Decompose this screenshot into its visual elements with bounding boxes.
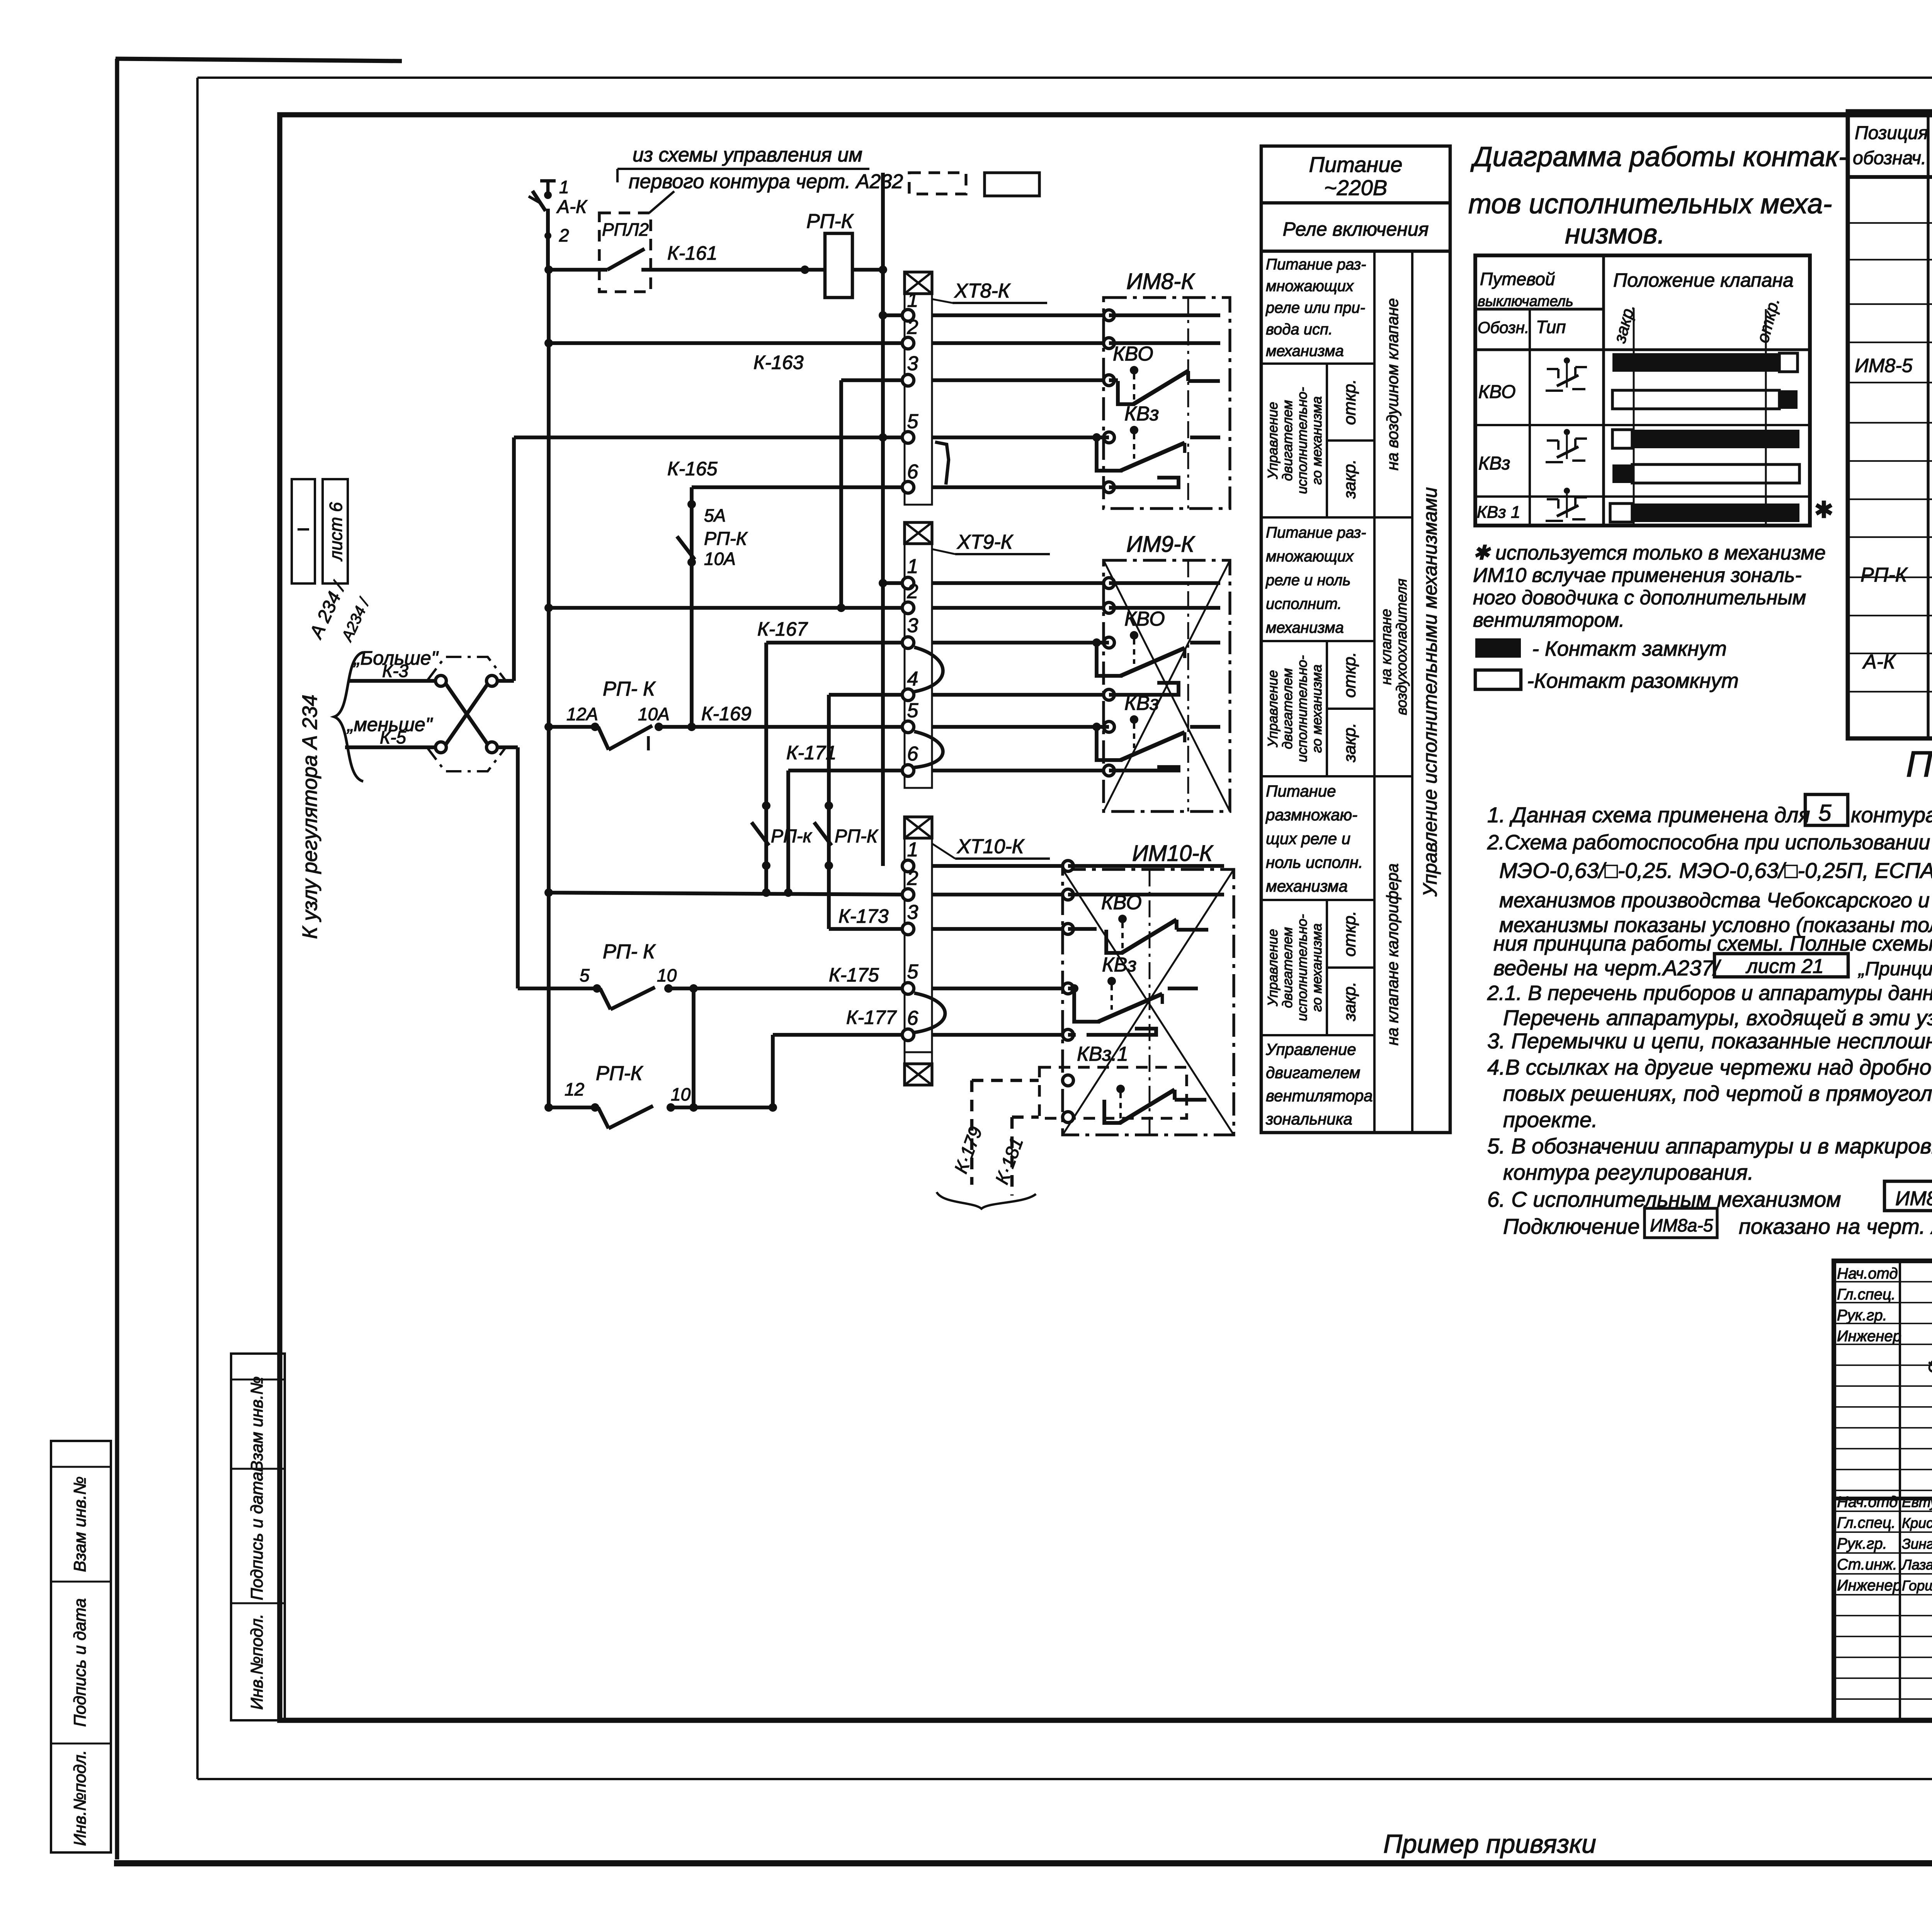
svg-text:4.В ссылках на другие черт: 4.В ссылках на другие чертежи над дробно…: [1487, 1055, 1932, 1079]
svg-text:тов исполнительных меха-: тов исполнительных меха-: [1468, 189, 1832, 219]
svg-text:откр.: откр.: [1340, 911, 1359, 957]
svg-text:ХТ9-К: ХТ9-К: [957, 531, 1014, 553]
svg-text:Питание: Питание: [1266, 782, 1336, 800]
svg-text:5: 5: [907, 410, 919, 433]
svg-text:3: 3: [907, 614, 918, 637]
svg-text:Гл.спец.: Гл.спец.: [1837, 1286, 1896, 1303]
svg-text:ния принципа работы схемы.: ния принципа работы схемы. Полные схемы …: [1493, 932, 1932, 955]
svg-text:из схемы управления им: из схемы управления им: [633, 144, 862, 166]
svg-text:двигателем: двигателем: [1279, 668, 1295, 749]
svg-text:Тип: Тип: [1536, 317, 1566, 337]
svg-text:исполнительно-: исполнительно-: [1294, 387, 1310, 494]
svg-text:закр.: закр.: [1340, 723, 1359, 763]
svg-text:- Контакт замкнут: - Контакт замкнут: [1532, 637, 1727, 660]
svg-text:10: 10: [671, 1084, 691, 1104]
svg-text:механизма: механизма: [1266, 877, 1348, 895]
svg-text:механизма: механизма: [1266, 342, 1344, 359]
svg-text:К-173: К-173: [838, 905, 889, 927]
svg-text:ИМ8-5: ИМ8-5: [1895, 1187, 1932, 1210]
svg-text:К узлу регулятора А 234: К узлу регулятора А 234: [298, 694, 321, 939]
svg-text:низмов.: низмов.: [1565, 219, 1665, 250]
svg-text:лист 21: лист 21: [1745, 955, 1824, 978]
svg-text:ного доводчика с дополнительны: ного доводчика с дополнительным: [1473, 587, 1806, 609]
svg-text:реле или при-: реле или при-: [1265, 299, 1365, 316]
svg-text:1: 1: [559, 177, 569, 197]
svg-text:Взам инв.№: Взам инв.№: [71, 1476, 90, 1572]
svg-text:10А: 10А: [704, 549, 736, 569]
svg-text:Позиция: Позиция: [1855, 123, 1928, 143]
svg-text:ИМ10 вслучае применения зона: ИМ10 вслучае применения зональ-: [1473, 564, 1802, 587]
svg-text:КВО: КВО: [1113, 343, 1153, 365]
svg-text:К-165: К-165: [667, 458, 718, 480]
svg-text:лист 6: лист 6: [326, 502, 346, 562]
svg-text:12: 12: [565, 1079, 584, 1099]
svg-text:2.Схема работоспособна при и: 2.Схема работоспособна при использовании…: [1487, 831, 1932, 854]
svg-text:КВО: КВО: [1101, 891, 1142, 914]
svg-text:Зингерман: Зингерман: [1902, 1536, 1932, 1552]
svg-text:Инженер: Инженер: [1837, 1577, 1901, 1594]
svg-text:ИМ10-К: ИМ10-К: [1132, 841, 1214, 866]
svg-text:множающих: множающих: [1266, 278, 1354, 295]
svg-text:откр.: откр.: [1340, 379, 1359, 425]
svg-text:Подпись и дата: Подпись и дата: [71, 1598, 90, 1727]
svg-text:контура регулирования.: контура регулирования.: [1503, 1160, 1754, 1184]
svg-text:ИМ8-5: ИМ8-5: [1855, 355, 1913, 376]
svg-text:Обозн.: Обозн.: [1478, 318, 1529, 337]
svg-text:5: 5: [907, 699, 919, 722]
svg-text:ХТ8-К: ХТ8-К: [954, 280, 1011, 302]
svg-text:К-163: К-163: [753, 352, 804, 373]
svg-text:показано на черт. А236 /: показано на черт. А236 /: [1739, 1214, 1932, 1238]
svg-text:на клапане: на клапане: [1378, 609, 1395, 685]
svg-text:КВО: КВО: [1124, 608, 1165, 630]
svg-text:10: 10: [657, 965, 677, 985]
svg-text:К-167: К-167: [757, 618, 808, 640]
svg-text:Пример привязки: Пример привязки: [1383, 1829, 1596, 1859]
svg-text:КВО: КВО: [1478, 382, 1516, 402]
svg-text:А-К: А-К: [1862, 651, 1896, 673]
svg-text:КВз 1: КВз 1: [1477, 503, 1520, 522]
svg-text:го механизма: го механизма: [1309, 665, 1325, 753]
svg-text:закр.: закр.: [1340, 982, 1359, 1022]
svg-text:реле и ноль: реле и ноль: [1265, 572, 1350, 589]
svg-text:обознач.: обознач.: [1853, 148, 1926, 168]
svg-text:исполнит.: исполнит.: [1266, 595, 1342, 612]
svg-text:на воздушном клапане: на воздушном клапане: [1383, 298, 1401, 471]
svg-text:механизма: механизма: [1266, 619, 1344, 636]
svg-text:1: 1: [907, 839, 918, 861]
svg-text:РП-К: РП-К: [806, 210, 854, 233]
svg-text:„Принципиалы-ые электрические: „Принципиалы-ые электрические схемы узло…: [1858, 958, 1932, 980]
svg-text:двигателем: двигателем: [1279, 400, 1295, 481]
svg-text:КВз: КВз: [1478, 453, 1510, 474]
svg-text:КВз: КВз: [1124, 403, 1159, 425]
svg-text:РП-К: РП-К: [704, 529, 748, 549]
svg-text:выключатель: выключатель: [1478, 293, 1573, 310]
svg-text:2: 2: [907, 867, 918, 890]
svg-text:го механизма: го механизма: [1309, 396, 1325, 485]
svg-text:3: 3: [907, 352, 918, 375]
svg-text:на клапане калорифера: на клапане калорифера: [1383, 863, 1401, 1045]
svg-text:10А: 10А: [638, 704, 670, 724]
svg-text:✱ используется только в механи: ✱ используется только в механизме: [1473, 542, 1826, 564]
svg-text:закр.: закр.: [1340, 459, 1359, 499]
svg-text:Управление: Управление: [1265, 929, 1281, 1007]
svg-text:двигателем: двигателем: [1279, 927, 1295, 1008]
svg-text:откр.: откр.: [1340, 652, 1359, 698]
svg-text:5: 5: [580, 965, 590, 985]
svg-text:зональника: зональника: [1265, 1110, 1352, 1128]
svg-text:Инв.№подл.: Инв.№подл.: [248, 1614, 267, 1710]
svg-text:Управление: Управление: [1265, 1040, 1356, 1058]
svg-text:К-175: К-175: [829, 964, 879, 986]
svg-text:ИМ8-К: ИМ8-К: [1126, 269, 1195, 294]
svg-text:5. В обозначении аппаратуры: 5. В обозначении аппаратуры и в маркиров…: [1487, 1134, 1932, 1158]
svg-text:12А: 12А: [566, 704, 598, 724]
svg-text:КВз.1: КВз.1: [1077, 1043, 1128, 1065]
svg-text:Нач.отд: Нач.отд: [1837, 1265, 1898, 1282]
svg-text:ХТ10-К: ХТ10-К: [957, 835, 1025, 858]
svg-text:1. Данная схема применена для: 1. Данная схема применена для: [1487, 803, 1810, 827]
svg-text:Положение клапана: Положение клапана: [1613, 269, 1794, 291]
svg-text:А-К: А-К: [556, 197, 588, 217]
svg-text:Диаграмма работы контак-: Диаграмма работы контак-: [1470, 141, 1848, 172]
svg-text:первого контура черт. А232: первого контура черт. А232: [629, 170, 903, 193]
svg-text:Горшенина: Горшенина: [1902, 1578, 1932, 1594]
svg-text:5А: 5А: [704, 505, 726, 526]
svg-text:6: 6: [907, 461, 918, 483]
svg-text:Гл.спец.: Гл.спец.: [1837, 1514, 1896, 1531]
svg-text:2: 2: [907, 316, 918, 338]
svg-text:Питание: Питание: [1309, 152, 1403, 177]
svg-text:Управление: Управление: [1265, 670, 1281, 748]
svg-text:4: 4: [907, 668, 918, 690]
svg-text:РПЛ2: РПЛ2: [602, 219, 649, 240]
svg-text:повых решениях, под чертой: повых решениях, под чертой в прямоугольн…: [1503, 1081, 1932, 1106]
svg-text:РП- К: РП- К: [603, 941, 656, 963]
svg-text:2: 2: [559, 225, 569, 245]
svg-text:множающих: множающих: [1266, 548, 1354, 565]
svg-text:Рук.гр.: Рук.гр.: [1837, 1307, 1887, 1324]
svg-text:проекте.: проекте.: [1503, 1107, 1598, 1132]
svg-text:исполнительно-: исполнительно-: [1294, 914, 1310, 1021]
svg-text:РП-к: РП-к: [771, 826, 813, 847]
svg-text:Питание раз-: Питание раз-: [1266, 256, 1366, 273]
svg-text:Подпись и дата: Подпись и дата: [248, 1472, 267, 1601]
svg-text:Управление: Управление: [1265, 402, 1281, 480]
svg-text:ИМ8а-5: ИМ8а-5: [1650, 1215, 1713, 1235]
svg-text:К-3: К-3: [382, 661, 408, 681]
svg-text:3. Перемычки и цепи, показа: 3. Перемычки и цепи, показанные несплошн…: [1487, 1029, 1932, 1053]
svg-text:2.1. В перечень приборов и: 2.1. В перечень приборов и аппаратуры да…: [1487, 981, 1932, 1005]
svg-text:Питание раз-: Питание раз-: [1266, 524, 1366, 541]
svg-text:ноль исполн.: ноль исполн.: [1266, 853, 1363, 871]
svg-text:2: 2: [907, 580, 918, 603]
svg-text:ведены на черт.А237/: ведены на черт.А237/: [1493, 956, 1721, 980]
svg-text:КВз: КВз: [1124, 692, 1159, 714]
svg-text:К-161: К-161: [667, 242, 718, 264]
svg-text:К-169: К-169: [701, 703, 752, 725]
svg-text:Перечень аппаратуры, входящей: Перечень аппаратуры, входящей в эти узлы…: [1503, 1005, 1932, 1030]
svg-text:РП-К: РП-К: [596, 1062, 644, 1085]
svg-text:5: 5: [1818, 800, 1832, 826]
svg-text:Подключение: Подключение: [1503, 1214, 1640, 1238]
svg-text:Кристошевский: Кристошевский: [1902, 1515, 1932, 1531]
svg-text:вентилятора: вентилятора: [1266, 1087, 1373, 1105]
svg-text:Ст.инж.: Ст.инж.: [1837, 1556, 1897, 1573]
svg-text:МЭО-0,63/□-0,25. МЭО-0,63/□-0,: МЭО-0,63/□-0,25. МЭО-0,63/□-0,25П, ЕСПАО…: [1499, 858, 1932, 883]
svg-text:вода исп.: вода исп.: [1266, 321, 1333, 338]
svg-text:РП-К: РП-К: [835, 826, 879, 847]
svg-text:исполнительно-: исполнительно-: [1294, 655, 1310, 762]
svg-text:Лазаренко: Лазаренко: [1901, 1557, 1932, 1573]
svg-text:двигателем: двигателем: [1266, 1063, 1360, 1082]
svg-text:К-177: К-177: [846, 1007, 897, 1028]
svg-text:вентилятором.: вентилятором.: [1473, 609, 1624, 631]
svg-text:-Контакт разомкнут: -Контакт разомкнут: [1527, 669, 1739, 692]
svg-text:Примечания: Примечания: [1906, 744, 1932, 785]
svg-text:механизмов производства Чебок: механизмов производства Чебоксарского и …: [1499, 889, 1932, 912]
svg-text:Реле включения: Реле включения: [1283, 218, 1429, 240]
svg-text:контура доводчиков: контура доводчиков: [1851, 803, 1932, 827]
svg-text:размножаю-: размножаю-: [1265, 806, 1357, 824]
svg-text:✱: ✱: [1814, 497, 1833, 523]
svg-text:Рук.гр.: Рук.гр.: [1837, 1535, 1887, 1552]
svg-text:5: 5: [907, 961, 919, 983]
svg-text:~220В: ~220В: [1324, 175, 1388, 200]
svg-text:го механизма: го механизма: [1309, 924, 1325, 1012]
svg-text:К-5: К-5: [380, 727, 406, 747]
svg-text:3: 3: [907, 901, 918, 924]
svg-text:КВз: КВз: [1102, 954, 1137, 976]
svg-text:РП- К: РП- К: [603, 678, 656, 700]
svg-text:ИМ9-К: ИМ9-К: [1126, 532, 1195, 557]
svg-text:Нач.отд: Нач.отд: [1837, 1493, 1898, 1510]
svg-text:воздухоохладителя: воздухоохладителя: [1394, 578, 1410, 715]
svg-text:Путевой: Путевой: [1480, 269, 1555, 289]
svg-text:РП-К: РП-К: [1861, 564, 1908, 586]
svg-text:Взам инв.№: Взам инв.№: [248, 1376, 267, 1472]
svg-text:щих реле и: щих реле и: [1266, 829, 1350, 847]
svg-text:1: 1: [907, 555, 918, 578]
svg-text:6: 6: [907, 743, 918, 765]
svg-text:Инв.№подл.: Инв.№подл.: [71, 1750, 90, 1846]
svg-text:Инженер: Инженер: [1837, 1328, 1901, 1345]
svg-text:6: 6: [907, 1007, 918, 1029]
svg-text:Управление исполнительными: Управление исполнительными механизмами: [1419, 487, 1441, 897]
